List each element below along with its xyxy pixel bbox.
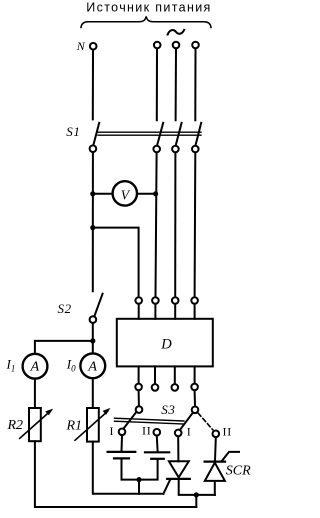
switch S1 pole L3 contact bbox=[192, 146, 199, 153]
svg-text:A: A bbox=[30, 360, 40, 375]
wire branch to ammeter I1 bbox=[35, 341, 93, 353]
thyristor VS2 triangle bbox=[205, 463, 225, 481]
wire output4 to S3 right pivot bbox=[194, 391, 196, 406]
ammeter A (I0) bbox=[80, 353, 105, 378]
wire R1 down to gate rail bbox=[93, 442, 164, 494]
stub box to output 3 bbox=[174, 366, 176, 383]
svg-text:N: N bbox=[76, 39, 86, 53]
resistor R1 arrow bbox=[75, 411, 108, 440]
switch S1 pole L2 contact bbox=[172, 146, 179, 153]
node: voltmeter to L1 junction bbox=[153, 191, 158, 196]
resistor R1 body bbox=[87, 408, 99, 442]
switch S1 pole L3 lever bbox=[196, 123, 202, 145]
wire S2 to ammeter junction bbox=[92, 323, 94, 353]
wire S3 left I down to battery G1 bbox=[121, 436, 124, 451]
wire L3 terminal down bbox=[194, 49, 196, 121]
wire VS1 cathode down bbox=[179, 479, 215, 495]
D input terminal 3 bbox=[172, 297, 179, 304]
switch S3 left lever bbox=[124, 413, 136, 429]
D input terminal 4 bbox=[191, 297, 198, 304]
wire L3 below S1 bbox=[194, 153, 197, 297]
wire junction down to bottom rail bbox=[195, 495, 197, 507]
svg-text:D: D bbox=[160, 336, 172, 352]
svg-text:Источник питания: Источник питания bbox=[86, 1, 211, 15]
wire L2 below S1 bbox=[174, 153, 176, 297]
wire S3 right I down to thyristor VS1 bbox=[177, 437, 179, 461]
wire VS2 anode down bbox=[214, 481, 216, 495]
terminal L2 bbox=[173, 42, 180, 49]
switch S3 left pivot bbox=[136, 406, 143, 413]
svg-text:S3: S3 bbox=[161, 402, 175, 417]
wire G1 down and right bbox=[122, 460, 140, 480]
D output terminal 4 bbox=[191, 384, 198, 391]
wire I0 to R1 bbox=[92, 378, 94, 408]
switch S3 right lever bbox=[181, 413, 193, 429]
stub t1 to box bbox=[138, 305, 140, 319]
svg-text:I: I bbox=[187, 425, 191, 439]
wire battery junction down bbox=[138, 480, 140, 494]
stub box to output 4 bbox=[194, 366, 196, 383]
wire L2 terminal down bbox=[175, 49, 177, 121]
switch S1 pole N contact bbox=[90, 145, 97, 152]
S3 right dashed lever to II bbox=[198, 413, 213, 430]
thyristor VS2 gate lead bbox=[222, 452, 240, 462]
wire gate lead diagonal bbox=[163, 481, 169, 494]
brace under label bbox=[81, 16, 211, 27]
wire L1 terminal down bbox=[156, 49, 158, 121]
stub t2 to box bbox=[154, 305, 156, 319]
svg-text:II: II bbox=[142, 424, 152, 438]
wire I1 to R2 bbox=[34, 379, 36, 408]
D output terminal 2 bbox=[152, 384, 159, 391]
node: ammeter branch junction bbox=[90, 338, 95, 343]
switch S2 lever bbox=[95, 294, 103, 316]
thyristor VS1 triangle bbox=[169, 461, 189, 477]
S1 linkage double bar bbox=[98, 132, 201, 135]
resistor R2 body bbox=[29, 408, 41, 441]
svg-text:II: II bbox=[223, 424, 233, 438]
resistor R2 arrow bbox=[20, 411, 51, 438]
node: battery common junction bbox=[136, 477, 141, 482]
D input terminal 1 bbox=[135, 297, 142, 304]
switch S3 right pivot bbox=[192, 407, 199, 414]
wire G2 down and left bbox=[139, 460, 158, 480]
stub t3 to box bbox=[174, 305, 176, 319]
node: cathode rail junction bbox=[194, 492, 199, 497]
thyristor VS1 cathode bar bbox=[167, 478, 190, 480]
svg-text:S1: S1 bbox=[66, 124, 80, 139]
wire S3 right II down to thyristor VS2 bbox=[214, 438, 217, 461]
wire voltmeter right bbox=[137, 193, 155, 195]
D input terminal 2 bbox=[152, 297, 159, 304]
svg-text:I: I bbox=[110, 424, 114, 438]
node: N to voltmeter junction bbox=[90, 191, 95, 196]
stub box to output 2 bbox=[154, 366, 156, 383]
terminal N bbox=[90, 43, 97, 50]
D output terminal 1 bbox=[135, 384, 142, 391]
thyristor VS2 cathode bar bbox=[205, 461, 225, 463]
wire S3 left II down to battery G2 bbox=[156, 436, 159, 451]
battery G1 long plate bbox=[108, 451, 136, 453]
S3 right contact II bbox=[213, 431, 220, 438]
wire N below S1 bbox=[92, 152, 94, 291]
wire output1 to S3 left pivot bbox=[138, 391, 140, 406]
switch S1 pole L2 lever bbox=[176, 123, 182, 145]
switch S1 pole L1 contact bbox=[153, 146, 160, 153]
svg-text:R1: R1 bbox=[66, 418, 83, 433]
voltmeter V bbox=[113, 181, 137, 205]
wire N branch horizontal to D input bbox=[93, 228, 139, 297]
switch S1 pole N lever bbox=[93, 123, 99, 145]
block D bbox=[117, 319, 213, 367]
battery G2 short plate bbox=[151, 458, 164, 460]
svg-text:S2: S2 bbox=[58, 301, 72, 316]
S3 left contact II bbox=[154, 429, 161, 436]
battery G1 short plate bbox=[114, 457, 129, 459]
node: N branch to D input junction bbox=[90, 225, 95, 230]
switch S1 pole L1 lever bbox=[157, 123, 163, 145]
wire L1 below S1 bbox=[156, 153, 157, 297]
~ symbol bbox=[168, 30, 185, 35]
stub box to output 1 bbox=[138, 366, 140, 383]
terminal L3 bbox=[192, 42, 199, 49]
S3 left contact I bbox=[119, 429, 126, 436]
wire R2 down to bottom rail bbox=[35, 441, 196, 507]
wire voltmeter left bbox=[93, 193, 113, 195]
terminal L1 bbox=[154, 42, 161, 49]
battery G2 long plate bbox=[145, 451, 169, 453]
S3 linkage double bar bbox=[115, 418, 185, 424]
D output terminal 3 bbox=[172, 384, 179, 391]
stub t4 to box bbox=[194, 305, 196, 319]
S3 right contact I bbox=[175, 430, 182, 437]
wire N terminal down bbox=[92, 50, 94, 120]
ammeter A (I1) bbox=[23, 354, 48, 379]
svg-text:A: A bbox=[87, 360, 97, 375]
svg-text:SCR: SCR bbox=[226, 463, 251, 478]
switch S2 contact bbox=[90, 316, 97, 323]
svg-text:R2: R2 bbox=[7, 418, 24, 433]
